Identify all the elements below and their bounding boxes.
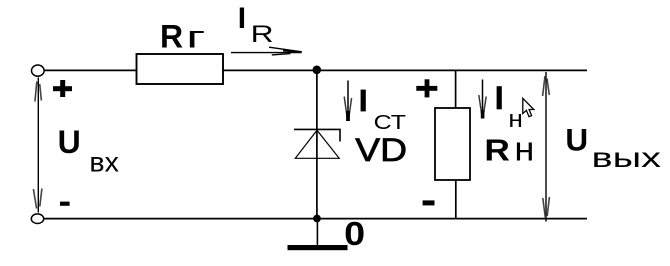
arrow I_ct (down, feathered) bbox=[344, 81, 351, 122]
input terminal (bottom-left, open circle) bbox=[31, 214, 43, 224]
voltage label U_vyx bbox=[565, 122, 661, 173]
svg-text:СТ: СТ bbox=[374, 111, 407, 134]
current label I_R bbox=[238, 2, 274, 48]
wire from top rail down to load resistor bbox=[455, 70, 457, 108]
svg-text:U: U bbox=[58, 124, 81, 160]
arrow U_vyx (double-headed measurement arrow) bbox=[543, 72, 550, 222]
arrow I_R (current direction, hand-drawn) bbox=[231, 47, 302, 55]
mouse cursor pointer bbox=[523, 98, 534, 116]
svg-text:вх: вх bbox=[89, 146, 119, 177]
plus sign (input) bbox=[53, 80, 72, 97]
svg-text:г: г bbox=[186, 18, 205, 54]
svg-text:вых: вых bbox=[592, 142, 662, 173]
node B (bottom junction dot) bbox=[313, 215, 321, 223]
input terminal (top-left, open circle) bbox=[32, 65, 45, 76]
arrow I_n (down, feathered) bbox=[479, 80, 486, 119]
voltage label U_vx bbox=[58, 124, 119, 177]
resistor R&#1075; value label bbox=[160, 18, 205, 54]
svg-text:0: 0 bbox=[344, 215, 365, 252]
resistor R&#1075; (ballast) body bbox=[137, 54, 224, 84]
svg-text:н: н bbox=[508, 106, 523, 133]
ground bar bbox=[288, 245, 348, 250]
wire top rail from input terminal through node to right edge bbox=[44, 69, 587, 71]
wire bottom rail bbox=[44, 218, 587, 220]
wire from bottom node to ground bbox=[316, 219, 318, 246]
current label I_ct (stabilizer current) bbox=[361, 90, 407, 135]
svg-text:R: R bbox=[251, 21, 274, 48]
svg-text:I: I bbox=[238, 2, 246, 35]
wire vertical through zener VD bbox=[316, 70, 318, 219]
wire from load resistor to bottom rail bbox=[455, 180, 457, 219]
svg-text:R: R bbox=[160, 18, 183, 54]
load resistor R&#1085; body bbox=[435, 108, 470, 180]
svg-text:U: U bbox=[565, 122, 588, 158]
svg-text:н: н bbox=[514, 130, 534, 168]
minus sign (input) bbox=[60, 202, 70, 206]
node A (top junction dot) bbox=[313, 66, 322, 75]
svg-text:R: R bbox=[484, 132, 510, 167]
svg-text:VD: VD bbox=[355, 132, 407, 168]
current label I_n (load current) bbox=[497, 86, 523, 133]
arrow U_vx (double-headed measurement arrow) bbox=[33, 78, 42, 213]
minus sign (output) bbox=[423, 200, 435, 205]
zener diode VD cathode bar with bent end bbox=[294, 129, 340, 141]
plus sign (output) bbox=[416, 79, 437, 97]
load resistor designator R&#1085; bbox=[484, 130, 534, 168]
zener diode VD anode triangle bbox=[295, 130, 339, 158]
